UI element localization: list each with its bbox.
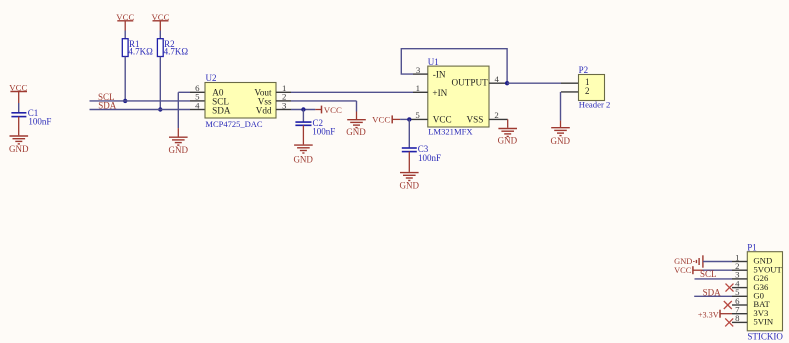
value 100nF (C2)	[312, 127, 335, 137]
designator P1	[747, 242, 757, 252]
pin number 2	[494, 110, 498, 120]
wire C3 branch	[408, 119, 410, 147]
pin number 3	[282, 100, 287, 110]
wire VCC to R2	[159, 31, 161, 39]
pin number 2 (P1)	[735, 261, 739, 271]
svg-text:2: 2	[585, 86, 590, 96]
wire R1 to SCL net	[124, 57, 126, 101]
svg-text:GND: GND	[9, 144, 29, 154]
power port VCC (P1 pin2)	[674, 266, 702, 275]
pin number 1	[282, 83, 286, 93]
svg-text:VCC: VCC	[433, 115, 452, 125]
pin number 1 (P2)	[585, 77, 590, 87]
pin name OUTPUT	[452, 78, 489, 88]
pin 3 stub (U1 -IN)	[413, 73, 428, 75]
ground (C3)	[400, 173, 420, 191]
svg-text:4: 4	[495, 74, 500, 84]
capacitor C2	[295, 122, 311, 125]
junction VCC/C3	[407, 117, 411, 121]
wire P1 pin1 to ground	[703, 261, 732, 263]
ground (U2 Vss)	[346, 120, 366, 137]
svg-text:VCC: VCC	[674, 266, 692, 275]
svg-text:2: 2	[494, 110, 498, 120]
pin name 5VOUT (P1-2)	[753, 264, 782, 274]
pin name -IN	[433, 70, 446, 80]
wire Vout to U1 +IN	[291, 91, 413, 93]
pin 1 stub (P2)	[561, 82, 579, 84]
pin number 2	[282, 92, 286, 102]
capacitor C1	[11, 113, 26, 117]
wire VCC to C1	[18, 103, 20, 112]
power port VCC (top-left, C1 rail)	[9, 83, 27, 103]
pin 1 stub (U2 Vout)	[276, 91, 291, 93]
pin 5 stub (U2 SCL)	[190, 100, 205, 102]
designator R1	[129, 39, 140, 49]
net label SDA	[98, 101, 117, 111]
pin number 1	[416, 83, 420, 93]
part name MCP4725_DAC	[205, 119, 262, 129]
pin name GND (P1-1)	[753, 256, 772, 266]
capacitor C3	[402, 148, 417, 152]
value 4.7KΩ (R2)	[164, 46, 189, 56]
wire VCC to R1	[124, 31, 126, 39]
value label C1	[28, 108, 39, 118]
wire A0 to ground (vertical)	[178, 92, 190, 136]
svg-text:4.7KΩ: 4.7KΩ	[128, 46, 153, 56]
pin name Vdd	[256, 106, 272, 116]
wire SDA	[90, 109, 191, 111]
part name LM321MFX	[428, 127, 473, 137]
pin name Vss	[258, 96, 272, 106]
pin 5 stub (P1)	[732, 295, 747, 297]
svg-text:GND: GND	[346, 127, 366, 137]
svg-text:100nF: 100nF	[28, 116, 51, 126]
svg-text:GND: GND	[169, 145, 189, 155]
pin 4 stub (U2 SDA)	[190, 109, 205, 111]
no connect X (P1 pin4)	[726, 284, 734, 292]
pin number 5	[415, 110, 420, 120]
svg-text:Vdd: Vdd	[256, 106, 272, 116]
svg-text:3: 3	[416, 65, 421, 75]
svg-text:VSS: VSS	[467, 115, 484, 125]
pin name VSS	[467, 115, 484, 125]
pin 3 stub (U2 Vdd)	[276, 109, 291, 111]
pin 6 stub (P1)	[732, 304, 747, 306]
svg-text:GND: GND	[551, 136, 571, 146]
svg-text:MCP4725_DAC: MCP4725_DAC	[205, 119, 262, 129]
feedback wire OUTPUT to -IN	[401, 49, 507, 83]
pin number 4 (P1)	[735, 278, 740, 288]
svg-text:5: 5	[415, 110, 420, 120]
power port VCC (above R2)	[151, 12, 169, 31]
pin number 3	[416, 65, 421, 75]
pin 6 stub (U2 A0)	[190, 91, 205, 93]
pin number 3 (P1)	[735, 270, 740, 280]
svg-text:GND: GND	[674, 257, 692, 266]
svg-text:U1: U1	[428, 57, 439, 67]
resistor R1	[122, 39, 128, 57]
svg-text:GND: GND	[293, 154, 313, 164]
svg-text:VCC: VCC	[324, 105, 342, 115]
pin name G36 (P1-4)	[753, 282, 769, 292]
pin 2 stub (P1)	[732, 269, 747, 271]
svg-text:4: 4	[195, 100, 200, 110]
pin number 6	[195, 83, 200, 93]
svg-text:+IN: +IN	[432, 88, 447, 98]
pin number 2 (P2)	[585, 86, 590, 96]
value 4.7KΩ (R1)	[128, 46, 153, 56]
header P2 body	[579, 75, 605, 101]
ground (U2 A0)	[169, 137, 189, 155]
wire C2 branch	[302, 110, 304, 122]
pin number 4	[195, 100, 200, 110]
ground (P1 pin1, sideways)	[674, 255, 703, 267]
svg-text:100nF: 100nF	[312, 127, 335, 137]
no connect X (P1 pin8)	[725, 318, 733, 326]
ground (P2 pin2)	[551, 128, 571, 146]
svg-text:GND: GND	[400, 181, 420, 191]
pin name +IN	[432, 88, 447, 98]
wire C3 to ground	[408, 152, 410, 172]
pin 3 stub (P1)	[732, 278, 747, 280]
svg-text:8: 8	[735, 313, 740, 323]
net label SCL (P1)	[700, 269, 717, 279]
wire SDA to P1 pin5	[694, 295, 732, 297]
power port VCC (U1 pin5)	[372, 114, 400, 124]
designator U1	[428, 57, 439, 67]
ground (U1 VSS)	[498, 129, 518, 146]
pin number 7 (P1)	[735, 305, 740, 315]
pin number 4	[495, 74, 500, 84]
wire Vss to ground	[291, 101, 357, 119]
op-amp U1 body	[428, 66, 489, 127]
part name STICKIO	[747, 332, 783, 342]
svg-text:P1: P1	[747, 242, 757, 252]
svg-text:Header 2: Header 2	[579, 100, 611, 110]
pin 2 stub (U2 Vss)	[276, 100, 291, 102]
svg-text:U2: U2	[206, 73, 217, 83]
pin 7 stub (P1)	[732, 313, 747, 315]
wire C1 to ground	[18, 117, 20, 136]
value 100nF (C3)	[418, 153, 441, 163]
wire Vdd to VCC	[291, 109, 315, 111]
pin name G26 (P1-3)	[753, 273, 769, 283]
designator R2	[164, 39, 175, 49]
svg-text:-IN: -IN	[433, 70, 446, 80]
net label SCL	[98, 92, 115, 102]
pin 5 stub (U1 VCC)	[411, 118, 428, 120]
power port VCC (above R1)	[116, 12, 134, 31]
svg-text:100nF: 100nF	[418, 153, 441, 163]
net label SDA (P1)	[703, 287, 722, 297]
svg-text:OUTPUT: OUTPUT	[452, 78, 489, 88]
pin 1 stub (P1)	[732, 261, 747, 263]
designator C2	[313, 118, 324, 128]
svg-text:SDA: SDA	[212, 106, 231, 116]
ground (below C1)	[9, 136, 29, 154]
pin number 6 (P1)	[735, 296, 740, 306]
designator C3	[418, 144, 429, 154]
junction OUTPUT/feedback	[505, 81, 509, 85]
wire C2 to ground	[302, 125, 304, 144]
designator P2	[579, 65, 589, 75]
pin 8 stub (P1)	[732, 321, 747, 323]
part name Header 2	[579, 100, 611, 110]
junction R1/SCL	[123, 99, 127, 103]
power port +3.3V (P1 pin7)	[698, 310, 732, 320]
ground (C2)	[293, 145, 313, 164]
designator U2	[206, 73, 217, 83]
wire OUTPUT to P2	[507, 82, 561, 84]
pin name G0 (P1-5)	[753, 291, 764, 301]
svg-text:3: 3	[282, 100, 287, 110]
wire SCL	[90, 100, 191, 102]
wire P2 pin2 to ground	[560, 92, 562, 127]
IC U2 body	[205, 83, 276, 119]
power port VCC (U2 Vdd)	[315, 105, 342, 115]
pin name A0	[212, 87, 224, 97]
svg-text:GND: GND	[498, 136, 518, 146]
pin name VCC	[433, 115, 452, 125]
pin number 5	[195, 92, 200, 102]
pin name SCL	[212, 96, 229, 106]
svg-text:4.7KΩ: 4.7KΩ	[164, 46, 189, 56]
pin 4 stub (P1)	[732, 287, 747, 289]
wire U1 VSS to ground	[507, 119, 509, 127]
svg-text:LM321MFX: LM321MFX	[428, 127, 473, 137]
svg-text:P2: P2	[579, 65, 589, 75]
junction Vdd/C2	[301, 107, 305, 111]
svg-text:VCC: VCC	[372, 114, 390, 124]
pin name BAT (P1-6)	[753, 299, 770, 309]
svg-text:+3.3V: +3.3V	[698, 310, 719, 319]
pin 1 stub (U1 +IN)	[413, 91, 428, 93]
pin 2 stub (U1 VSS)	[489, 118, 508, 120]
wire R2 to SDA net	[159, 57, 161, 110]
svg-text:5VIN: 5VIN	[753, 317, 774, 327]
pin name SDA	[212, 106, 231, 116]
wire SCL to P1 pin3	[695, 278, 733, 280]
wire VCC to P1 pin2	[703, 269, 733, 271]
svg-text:1: 1	[416, 83, 420, 93]
pin name 3V3 (P1-7)	[753, 308, 768, 318]
svg-text:SCL: SCL	[700, 269, 717, 279]
junction R2/SDA	[158, 107, 162, 111]
value label 100nF (C1)	[28, 116, 51, 126]
pin number 5 (P1)	[735, 287, 740, 297]
resistor R2	[157, 39, 163, 57]
pin 4 stub (U1 OUTPUT)	[489, 82, 507, 84]
pin 2 stub (P2)	[561, 91, 579, 93]
svg-text:STICKIO: STICKIO	[747, 332, 783, 342]
pin name 5VIN (P1-8)	[753, 317, 774, 327]
header P1 body	[747, 252, 782, 331]
wire VCC to U1 pin5	[400, 118, 411, 120]
pin number 8 (P1)	[735, 313, 740, 323]
pin name Vout	[254, 87, 272, 97]
pin number 1 (P1)	[735, 252, 739, 262]
no connect X (P1 pin6)	[724, 301, 732, 309]
